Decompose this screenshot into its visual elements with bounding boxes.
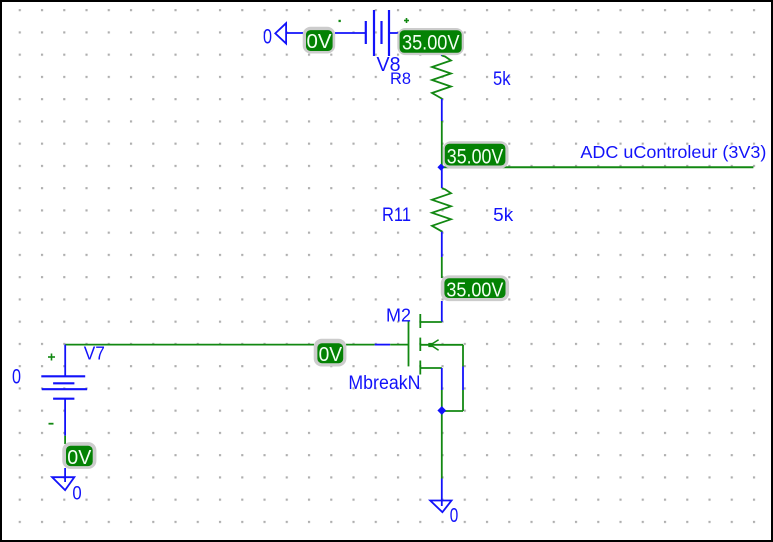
battery V7 [41,345,87,436]
minus mark of V7 [49,423,54,425]
wire: source lead down (blue) [441,368,443,390]
wire: below 0V label to ground [64,468,66,482]
junction (middle node) [437,164,444,171]
bias label 35.00V (middle node) [443,141,509,168]
wire: gate net (green after label) [346,344,375,346]
svg-text:0V: 0V [307,31,333,53]
plus mark of V7 [48,354,55,361]
wire: junction to ground (green) [441,411,443,479]
wire: bulk right vertical green top [462,345,464,367]
svg-text:0: 0 [72,483,81,504]
svg-text:ADC uControleur (3V3): ADC uControleur (3V3) [580,142,766,162]
wire: green segment into node [441,121,443,167]
svg-text:MbreakN: MbreakN [348,373,420,394]
svg-text:35.00V: 35.00V [446,280,504,302]
wire: source lead down (green) [441,390,443,411]
transistor M2 (MbreakN) [409,314,464,375]
junction (source/bulk) [437,406,446,415]
plus mark of V8 [404,18,409,23]
wire: gate net (green to gate bar) [390,344,408,346]
svg-text:5k: 5k [493,69,511,90]
wire: gate net (blue part) [375,344,391,346]
svg-text:0V: 0V [319,344,343,366]
svg-text:R8: R8 [390,69,411,88]
bias label 0V (top) [303,27,336,54]
svg-text:0: 0 [450,505,459,527]
svg-text:35.00V: 35.00V [447,146,504,169]
svg-text:0: 0 [263,26,272,49]
svg-text:35.00V: 35.00V [402,32,460,55]
wire: R11 bottom (blue) [441,232,443,257]
wire: drain vertical (blue) [441,301,443,322]
bias label 0V (V7 minus) [62,442,96,469]
ground (bottom center) [430,501,451,513]
wire: bulk right vertical blue [462,367,464,391]
svg-text:V7: V7 [84,343,105,363]
resistor R11 [432,188,451,232]
wire: battery V8 plus to rail (hidden under probe label) [397,33,442,56]
wire: V7 minus to 0V label (green) [64,436,66,444]
bulk arrow of M2 [428,340,438,351]
battery V8 [366,10,397,56]
svg-text:0: 0 [12,365,21,388]
stray green dot near V8 [339,20,341,22]
resistor R8 [432,56,451,100]
svg-text:5k: 5k [493,205,514,225]
wire: bulk bottom horizontal to source junction [442,410,463,412]
bias label 35.00V (top) [397,28,464,55]
wire: to ground (blue) [441,479,443,507]
bias label 0V (gate) [314,339,347,367]
ground (bottom left) [52,477,74,490]
wire: node down to R11 [441,167,443,188]
bias label 35.00V (drain) [441,275,509,301]
wire: 0V label to battery V8 minus [335,32,366,34]
svg-text:R11: R11 [382,205,411,226]
wire: gate net from V7 (green) [65,344,314,346]
svg-text:M2: M2 [386,304,411,325]
off-page connector 0 (top left) [275,23,286,43]
wire: green segment to drain node [441,257,443,278]
wire: bulk right vertical green bottom [462,390,464,411]
svg-text:0V: 0V [67,447,92,469]
wire: node to ADC (horizontal, green) [442,166,754,168]
wire: R8 bottom to node (blue part) [441,99,443,121]
wire: connector to 0V probe label [286,32,303,34]
